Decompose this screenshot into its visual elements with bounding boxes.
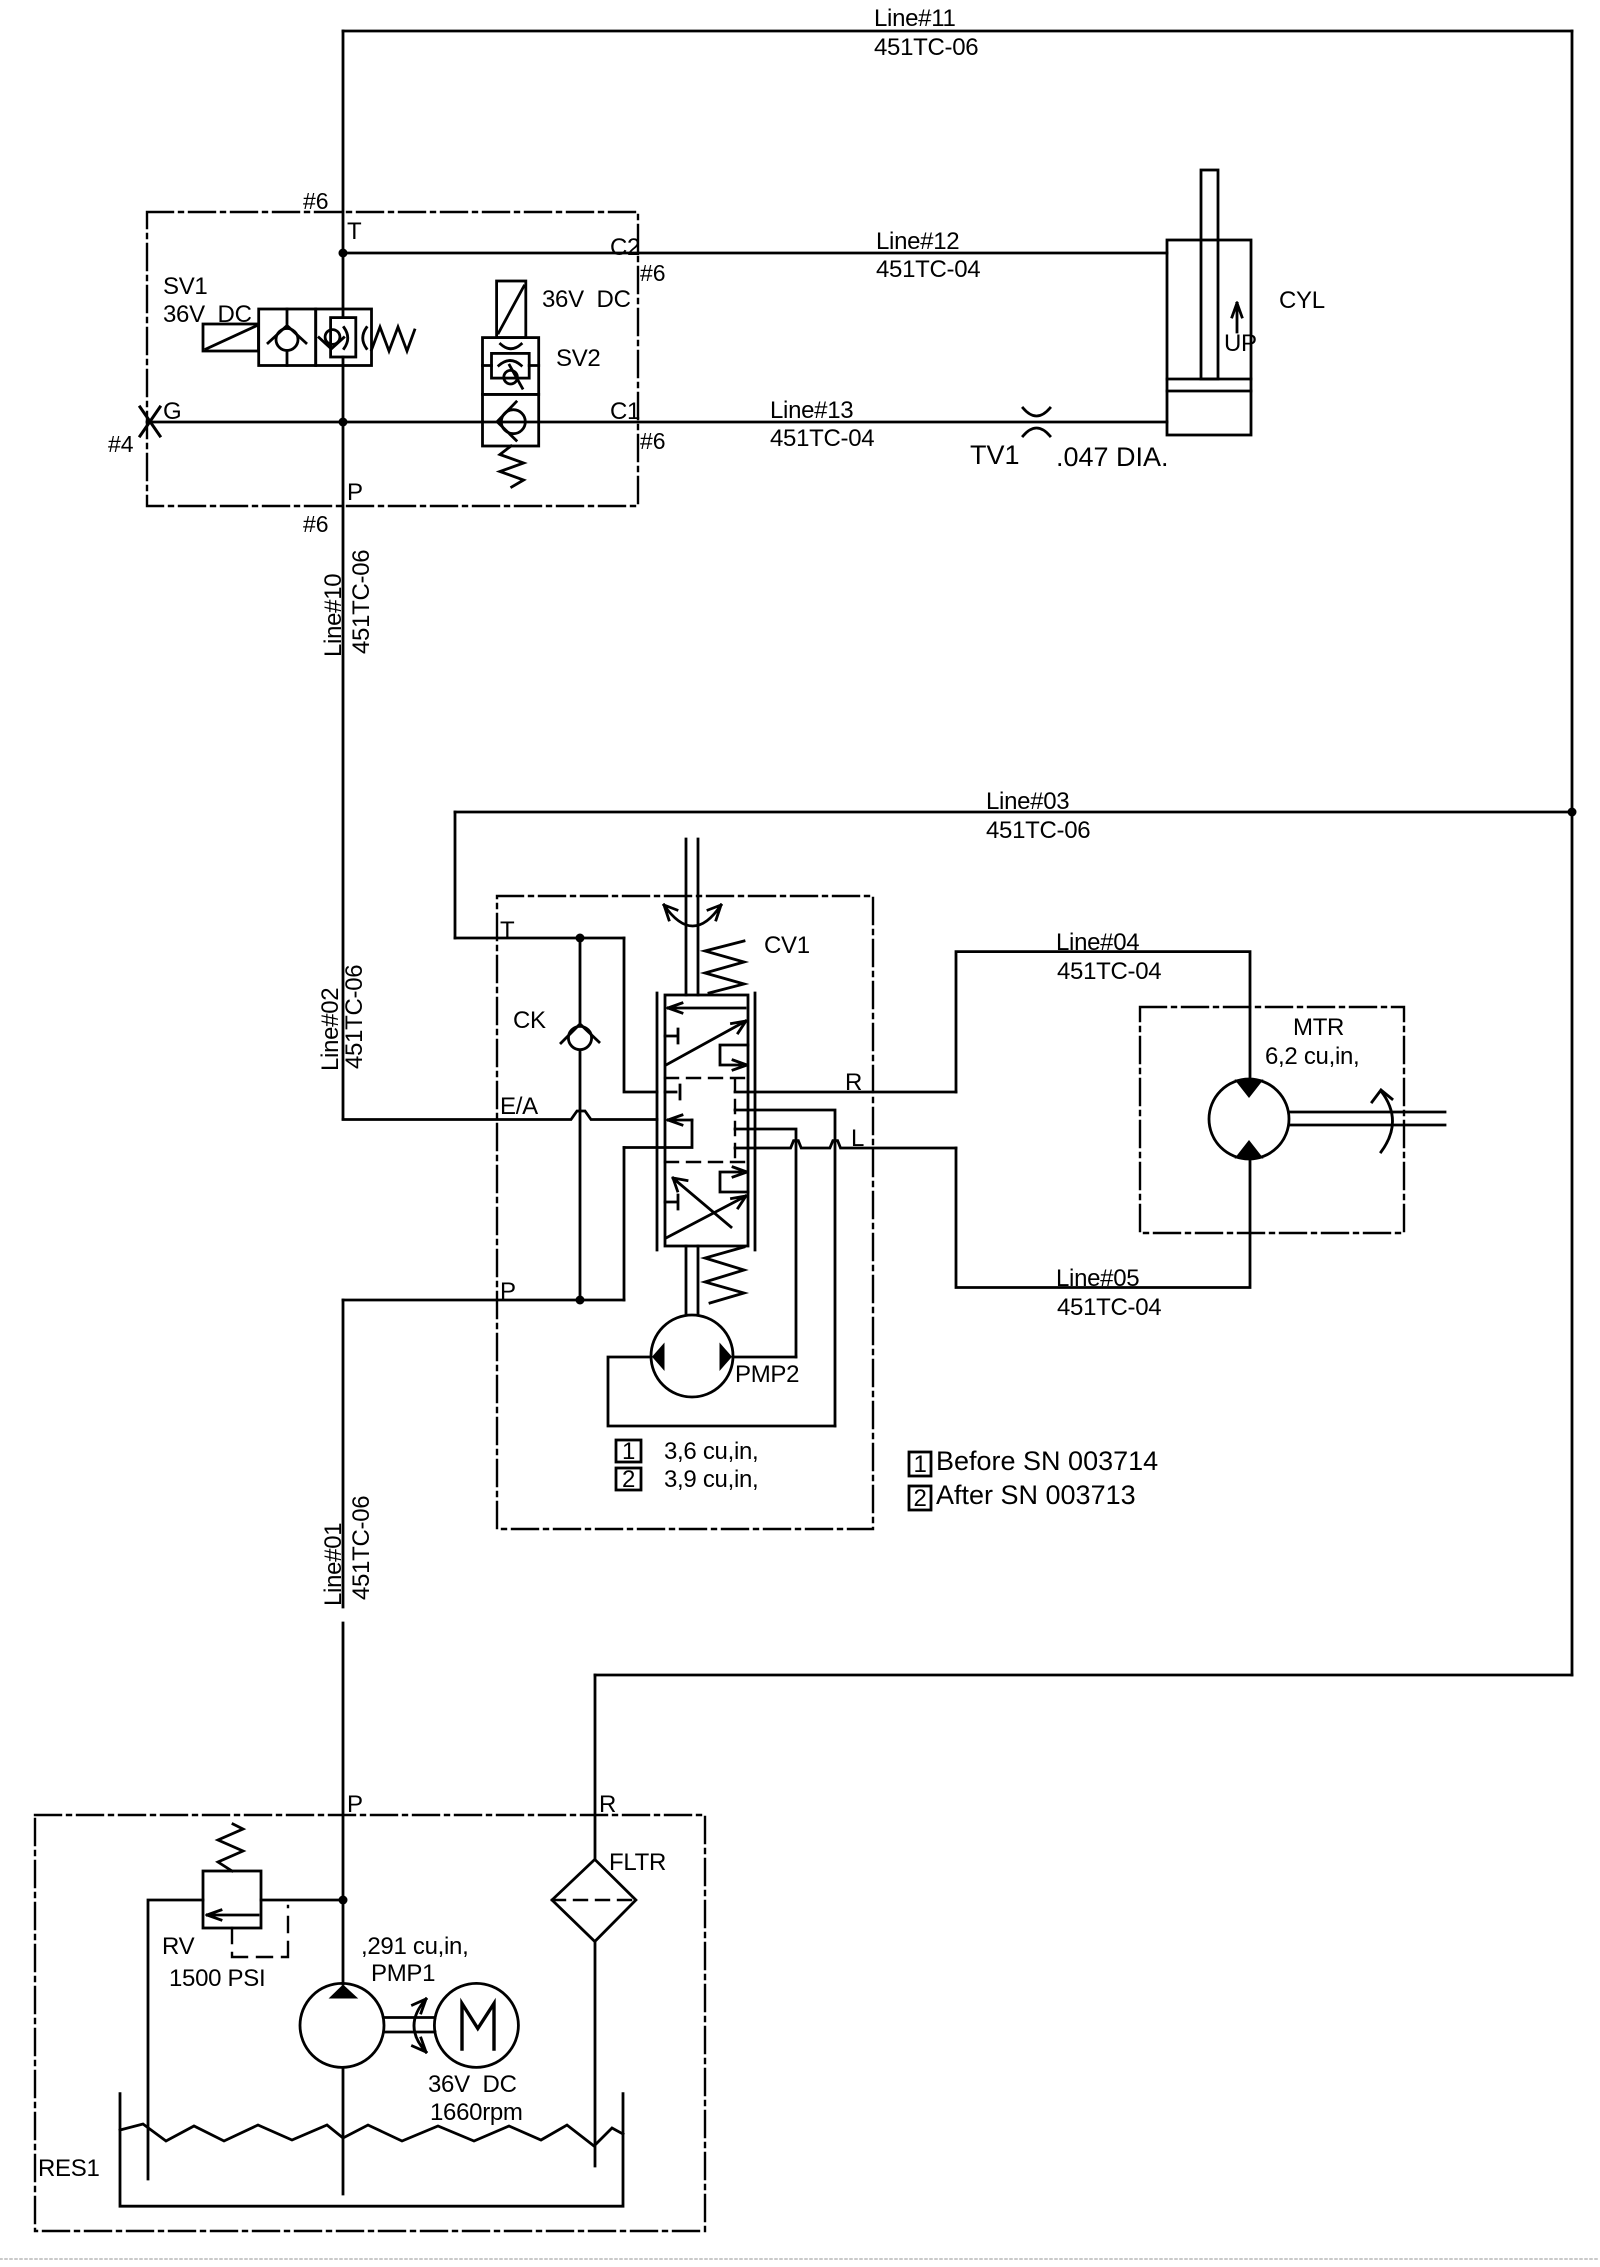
svg-text:Before SN 003714: Before SN 003714 [936, 1446, 1158, 1476]
node C1 label [610, 398, 666, 454]
svg-text:451TC-06: 451TC-06 [986, 817, 1090, 844]
valve CV1 spool stem top [686, 839, 698, 995]
node Line#12 label [876, 228, 980, 283]
node R label at reservoir [599, 1791, 616, 1818]
node Line#11 label [874, 5, 978, 61]
node C2 label [610, 234, 666, 286]
node P label CV1 [500, 1278, 516, 1305]
wire filter outlet into tank [594, 1942, 597, 2167]
cylinder piston lines [1167, 379, 1251, 391]
rotated label Line#10 [320, 550, 375, 657]
node Line#03 label [986, 788, 1090, 844]
junction dot T/CK [576, 934, 585, 943]
wire valve right stub to x=835 riser [735, 1110, 835, 1426]
valve SV1 body left cell with check valve [259, 309, 316, 366]
junction dot P/CK [576, 1296, 585, 1305]
svg-text:PMP2: PMP2 [735, 1361, 799, 1388]
svg-text:#4: #4 [108, 431, 134, 457]
svg-text:1660rpm: 1660rpm [430, 2099, 523, 2126]
fluid surface wavy line [120, 2124, 623, 2146]
wire right border vertical [1571, 31, 1574, 1675]
node FLTR label [609, 1849, 666, 1876]
rotation arrow MTR shaft [1372, 1090, 1393, 1152]
valve top position: diagonal arrow [666, 1021, 746, 1065]
svg-text:#6: #6 [303, 511, 329, 537]
valve top position: blocked port T-mark [665, 1029, 678, 1043]
note 2 box 3,9 cu,in, [616, 1468, 641, 1490]
svg-text:1: 1 [622, 1438, 635, 1465]
wire P header horizontal [343, 1299, 624, 1302]
cylinder CYL body [1167, 240, 1251, 435]
valve CV1 body rails [657, 993, 755, 1250]
svg-text:T: T [500, 917, 515, 944]
wire PMP2 right port [733, 1356, 796, 1359]
wire Line#03 [455, 811, 1572, 814]
svg-text:.047 DIA.: .047 DIA. [1056, 442, 1169, 472]
valve neutral: E/A arrow [668, 1115, 692, 1125]
wire T drop to valve R port [624, 938, 657, 1092]
svg-text:CYL: CYL [1279, 287, 1325, 314]
filter FLTR diamond [552, 1859, 636, 1941]
svg-text:T: T [347, 218, 362, 245]
wire C2 line to cylinder [343, 252, 1167, 255]
node P port label bottom of SV box [303, 479, 363, 537]
pump PMP2 [651, 1315, 733, 1397]
svg-text:1: 1 [913, 1451, 926, 1478]
svg-text:RV: RV [162, 1933, 195, 1960]
node CYL label [1279, 287, 1325, 314]
wire C1/G line [147, 421, 1167, 424]
shaft PMP1-motor double line [384, 2018, 435, 2033]
wire valve right stub to x=796 riser [735, 1129, 796, 1357]
svg-text:36V DC: 36V DC [163, 301, 252, 328]
wire pump suction into tank [342, 2067, 345, 2194]
note 2 After SN 003713 [909, 1486, 931, 1510]
svg-text:Line#12: Line#12 [876, 228, 959, 255]
wire Line#11 top horizontal [343, 30, 1572, 33]
SV manifold dash-dot box [147, 212, 638, 506]
svg-text:451TC-04: 451TC-04 [770, 425, 874, 452]
svg-text:RES1: RES1 [38, 2155, 100, 2182]
wire vertical main x=343 (Line#10 / Line#02) [342, 31, 345, 1119]
svg-text:3,9 cu,in,: 3,9 cu,in, [664, 1466, 758, 1493]
node RV label [162, 1933, 265, 1992]
svg-text:CK: CK [513, 1007, 546, 1034]
pump PMP1 outlet triangle [329, 1985, 359, 1999]
wire E/A line with jump over CK [343, 1111, 657, 1120]
restrictor TV1 orifice arcs [1023, 408, 1050, 436]
spring CV1 bottom [705, 1247, 744, 1303]
svg-text:#6: #6 [303, 188, 329, 214]
relief valve RV arrow inside [207, 1910, 258, 1920]
svg-text:36V DC: 36V DC [542, 286, 631, 313]
wire Line#05 [956, 1148, 1250, 1288]
valve bottom position: blocked port T-mark [665, 1195, 678, 1209]
svg-text:After SN 003713: After SN 003713 [936, 1480, 1136, 1510]
node Line#13 label [770, 397, 874, 452]
wire P riser to valve [623, 1148, 626, 1301]
valve SV2 lower cell check valve [483, 394, 539, 446]
svg-text:451TC-04: 451TC-04 [1057, 1294, 1161, 1321]
svg-text:Line#03: Line#03 [986, 788, 1069, 815]
cylinder rod [1201, 170, 1218, 379]
node E/A label [500, 1093, 538, 1120]
node R label [845, 1069, 862, 1096]
svg-text:2: 2 [913, 1485, 926, 1512]
wire R return vertical to filter [594, 1675, 597, 1859]
wire PMP2 left port loop [608, 1357, 835, 1426]
svg-text:R: R [845, 1069, 862, 1096]
wire T header horizontal [455, 937, 624, 940]
electric motor M circle [434, 1983, 518, 2067]
valve neutral section dashed borders [665, 1078, 748, 1162]
junction dot T/C2 [339, 249, 348, 258]
svg-text:451TC-06: 451TC-06 [341, 965, 368, 1069]
note 1 Before SN 003714 [909, 1452, 931, 1476]
pump PMP1 circle [300, 1983, 384, 2067]
motor shaft double line [1289, 1112, 1445, 1125]
node T label CV1 [500, 917, 515, 944]
note 1 box 3,6 cu,in, [616, 1440, 641, 1462]
wire bottom return horizontal [595, 1674, 1572, 1677]
node CK label [513, 1007, 546, 1034]
junction dot Line#03/right vertical [1568, 808, 1577, 817]
svg-text:#6: #6 [640, 428, 666, 454]
node motor labels [428, 2071, 523, 2126]
svg-text:CV1: CV1 [764, 932, 810, 959]
rotated label Line#02 [317, 965, 368, 1071]
junction dot C1 line / vertical [339, 418, 348, 427]
motor MTR circle [1209, 1079, 1289, 1159]
solenoid valve SV1 coil box [203, 324, 259, 351]
node Line#04 label [1056, 929, 1161, 985]
rotation arrow CV1 top [664, 905, 721, 926]
valve top position: U-turn passage with arrow [720, 1045, 748, 1070]
wire Line#03 drop to T [454, 812, 457, 938]
arrow UP inside cylinder [1232, 303, 1242, 332]
valve bottom position: diagonal arrow 1 [666, 1196, 746, 1238]
svg-text:2: 2 [622, 1466, 635, 1493]
wire R port out of valve [735, 1091, 956, 1094]
wire RV to P line [261, 1899, 343, 1902]
svg-text:UP: UP [1224, 330, 1257, 357]
svg-text:MTR: MTR [1293, 1014, 1344, 1041]
spring SV2 bottom [500, 446, 524, 487]
valve bottom position: U-turn passage with arrow [720, 1167, 748, 1192]
svg-text:C1: C1 [610, 398, 640, 425]
node SV2 labels [542, 286, 631, 372]
valve SV1 body right cell with pilot check [316, 309, 372, 366]
svg-text:451TC-06: 451TC-06 [348, 550, 375, 654]
reservoir tank walls [120, 2094, 623, 2207]
svg-text:P: P [347, 479, 363, 506]
pilot arcs SV1 [344, 328, 367, 349]
svg-text:Line#05: Line#05 [1056, 1265, 1139, 1292]
svg-text:#6: #6 [640, 260, 666, 286]
svg-text:PMP1: PMP1 [371, 1960, 435, 1987]
wire L port out of valve with jumps [735, 1141, 956, 1148]
svg-text:Line#04: Line#04 [1056, 929, 1139, 956]
valve top position: arrow to left [668, 1003, 745, 1013]
svg-text:,291 cu,in,: ,291 cu,in, [361, 1933, 468, 1960]
svg-text:FLTR: FLTR [609, 1849, 666, 1876]
node G label [108, 398, 181, 457]
node Line#05 label [1056, 1265, 1161, 1321]
check valve CK [561, 938, 599, 1300]
node T port label top [303, 188, 362, 245]
svg-text:6,2 cu,in,: 6,2 cu,in, [1265, 1043, 1359, 1070]
node PMP2 label [735, 1361, 799, 1388]
node RES1 label [38, 2155, 100, 2182]
svg-text:R: R [599, 1791, 616, 1818]
svg-text:3,6 cu,in,: 3,6 cu,in, [664, 1438, 758, 1465]
valve CV1 body box [665, 995, 748, 1246]
valve bottom position: diagonal arrow 2 [673, 1178, 731, 1227]
page bottom faint dotted line [0, 2258, 1600, 2260]
svg-text:E/A: E/A [500, 1093, 538, 1120]
wire RV outlet to tank [148, 1900, 203, 2179]
rotated label Line#01 [320, 1496, 375, 1606]
junction dot P/RV [339, 1896, 348, 1905]
svg-text:Line#11: Line#11 [874, 5, 956, 32]
svg-text:P: P [500, 1278, 516, 1305]
relief valve RV box [203, 1871, 261, 1928]
svg-text:P: P [347, 1791, 363, 1818]
node SV1 label [163, 273, 252, 328]
letter M inside motor [462, 2004, 494, 2050]
CV1 dash-dot box [497, 896, 873, 1529]
svg-text:G: G [163, 398, 181, 425]
svg-text:451TC-04: 451TC-04 [1057, 958, 1161, 985]
spring SV1 right [372, 327, 415, 351]
svg-text:SV2: SV2 [556, 345, 600, 372]
port G plug X symbol [140, 407, 160, 436]
node CV1 label [764, 932, 810, 959]
svg-text:1500 PSI: 1500 PSI [169, 1965, 265, 1992]
solenoid valve SV2 coil box [497, 281, 526, 338]
svg-text:451TC-06: 451TC-06 [348, 1496, 375, 1600]
svg-text:451TC-06: 451TC-06 [874, 34, 978, 61]
wire P supply vertical (Line#01 lower) [342, 1300, 345, 1984]
node PMP1 labels [361, 1933, 468, 1987]
node MTR label [1265, 1014, 1359, 1070]
dashed pilot line RV [232, 1906, 288, 1957]
node TV1 label [970, 440, 1169, 472]
svg-text:L: L [851, 1125, 864, 1152]
relief valve RV spring [218, 1824, 243, 1871]
svg-text:Line#02: Line#02 [317, 988, 344, 1071]
valve SV2 upper cell pilot element [483, 338, 539, 395]
svg-text:Line#10: Line#10 [320, 574, 347, 657]
node P label at reservoir [347, 1791, 363, 1818]
wire valve E/A-P internal link [624, 1120, 692, 1148]
svg-text:TV1: TV1 [970, 440, 1020, 470]
svg-text:SV1: SV1 [163, 273, 207, 300]
svg-text:C2: C2 [610, 234, 640, 261]
node L label [851, 1125, 864, 1152]
rotation arrow PMP1 shaft [413, 1999, 427, 2052]
svg-text:36V DC: 36V DC [428, 2071, 517, 2098]
valve neutral: left R stub blocked [665, 1085, 680, 1099]
MTR dash-dot box [1140, 1007, 1404, 1233]
svg-text:Line#13: Line#13 [770, 397, 853, 424]
wire Line#04 [956, 952, 1250, 1092]
svg-text:451TC-04: 451TC-04 [876, 256, 980, 283]
RES1 dash-dot box [35, 1815, 705, 2231]
spring CV1 top [705, 941, 744, 993]
valve CV1 spool stem bottom [686, 1246, 698, 1315]
